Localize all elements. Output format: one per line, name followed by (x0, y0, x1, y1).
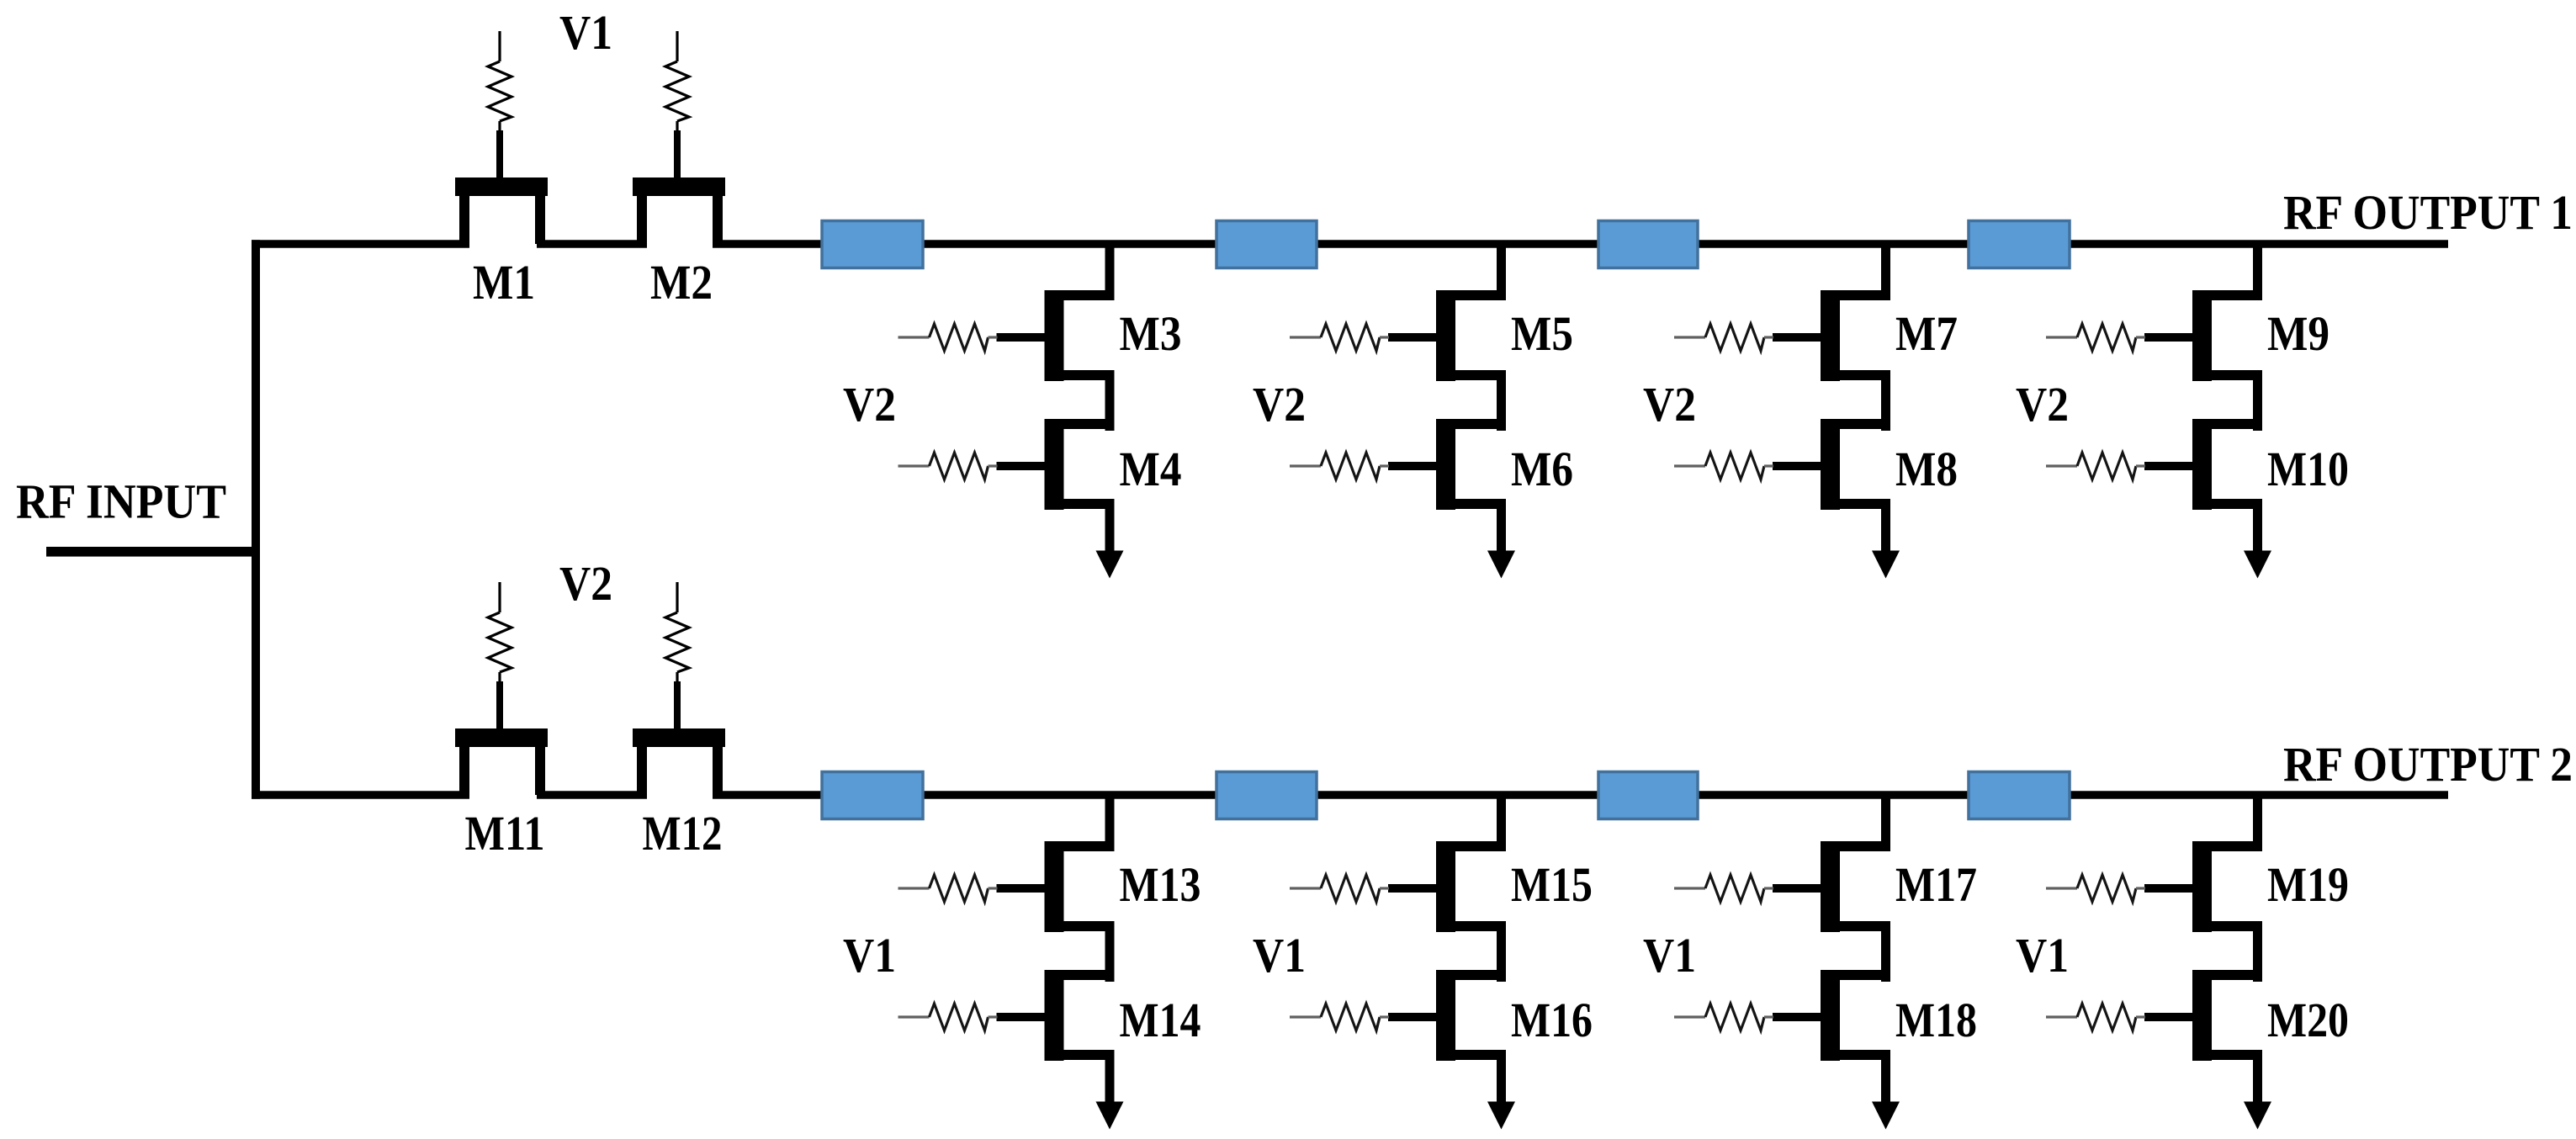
svg-text:V2: V2 (1253, 377, 1306, 432)
svg-text:M7: M7 (1895, 306, 1958, 361)
svg-text:V2: V2 (2016, 377, 2069, 432)
svg-text:M6: M6 (1511, 442, 1573, 496)
svg-text:M17: M17 (1895, 857, 1977, 912)
svg-text:M20: M20 (2267, 993, 2349, 1047)
svg-text:M1: M1 (473, 255, 535, 310)
svg-text:M14: M14 (1120, 993, 1201, 1047)
svg-text:V1: V1 (559, 5, 612, 60)
svg-text:V2: V2 (843, 377, 896, 432)
svg-text:M5: M5 (1511, 306, 1573, 361)
svg-text:V2: V2 (559, 556, 612, 611)
svg-text:RF OUTPUT 1: RF OUTPUT 1 (2283, 185, 2573, 240)
svg-text:V1: V1 (843, 928, 896, 983)
svg-text:M8: M8 (1895, 442, 1958, 496)
svg-text:M18: M18 (1895, 993, 1977, 1047)
svg-text:V2: V2 (1643, 377, 1696, 432)
svg-text:RF INPUT: RF INPUT (16, 474, 226, 529)
svg-text:M2: M2 (650, 255, 713, 310)
svg-text:M12: M12 (643, 806, 723, 861)
svg-text:M13: M13 (1120, 857, 1201, 912)
svg-text:M10: M10 (2267, 442, 2349, 496)
svg-text:M16: M16 (1511, 993, 1593, 1047)
svg-text:V1: V1 (1643, 928, 1696, 983)
svg-text:M11: M11 (465, 806, 545, 861)
svg-text:M15: M15 (1511, 857, 1593, 912)
svg-text:M19: M19 (2267, 857, 2349, 912)
svg-text:M4: M4 (1120, 442, 1182, 496)
svg-text:M9: M9 (2267, 306, 2330, 361)
svg-text:RF OUTPUT 2: RF OUTPUT 2 (2283, 737, 2573, 792)
svg-text:V1: V1 (1253, 928, 1306, 983)
svg-text:V1: V1 (2016, 928, 2069, 983)
svg-text:M3: M3 (1120, 306, 1182, 361)
